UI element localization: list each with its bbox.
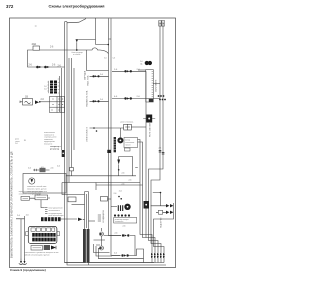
trunk harness lines [85, 192, 89, 265]
big box lower-left [23, 174, 66, 194]
svg-text:5-6: 5-6 [104, 58, 107, 60]
small box lower-left [21, 196, 30, 200]
bus mid vertical 3 [68, 58, 70, 183]
trunk to ticks wire [89, 220, 96, 222]
box on wire A [68, 197, 76, 202]
small text left x15 [15, 139, 27, 146]
bullets bottom rows [121, 234, 129, 256]
L-step wire B [151, 150, 161, 263]
comb feed 3 [138, 142, 156, 263]
small box on bus [70, 168, 74, 171]
svg-text:Схемы электрооборудования: Схемы электрооборудования [48, 5, 104, 9]
wire lamp top [108, 198, 112, 200]
right-mid bus pair [109, 19, 122, 256]
wire rotated-label row y76 [90, 75, 109, 77]
grid contact dots [52, 99, 64, 111]
dark relay box right x146 [146, 115, 152, 123]
wire with fusible loop [78, 48, 109, 54]
lamp tie wires [94, 240, 106, 249]
border frame [10, 18, 176, 268]
wiper relay box [124, 124, 132, 130]
wire row y98.5 [112, 98, 160, 100]
wiper feed wire y128 [90, 127, 124, 129]
svg-text:отопителем и: отопителем и [49, 210, 60, 212]
svg-text:372: 372 [6, 4, 14, 9]
diode junction [153, 193, 161, 206]
svg-text:тителя: тителя [125, 144, 131, 146]
text block y206-216 [49, 208, 64, 218]
motor M dark [117, 137, 123, 143]
wire rotated-label row y101 [90, 100, 109, 102]
dark row to trunk wire [60, 218, 85, 220]
bus short vertical right [73, 68, 75, 150]
loop circuit washer [119, 157, 133, 176]
junction arrow top [76, 39, 79, 42]
svg-text:отопителя: отопителя [115, 221, 124, 223]
lighter component on box top [40, 168, 46, 172]
diodes right [166, 204, 173, 214]
svg-text:ЗАРЯДКА: ЗАРЯДКА [84, 70, 87, 80]
wire box2 drop [41, 200, 45, 208]
svg-text:5-6: 5-6 [113, 58, 116, 60]
L-step wire A [149, 154, 164, 263]
resistor label box [114, 218, 137, 224]
relay contact dots right [158, 95, 166, 100]
connector dot [76, 49, 78, 51]
bus left pair vertical 1 [65, 22, 155, 263]
svg-text:Схема 9 (продолжение): Схема 9 (продолжение) [10, 268, 46, 272]
bus mid vertical 4 [71, 58, 73, 176]
heater blower resistor bars [118, 205, 122, 211]
svg-text:в салоне: в салоне [73, 54, 80, 56]
svg-text:УКАЗАТЕЛЬ ПОВ.: УКАЗАТЕЛЬ ПОВ. [86, 90, 89, 107]
pin ticks left of control text [45, 208, 48, 214]
lamp wires bottom [104, 236, 144, 263]
long horizontal y175 [66, 175, 136, 177]
horizontal y185 with riser [96, 183, 143, 191]
drop wire x86.5 to bus [87, 50, 109, 71]
comb connector symbols [151, 253, 165, 258]
vertical from top frame [95, 18, 97, 45]
wire fuse left drop [28, 50, 65, 67]
text inside big box [27, 185, 47, 193]
bottom rail [65, 262, 165, 264]
junction dots near lamp box [118, 196, 120, 198]
big connector block [28, 227, 57, 244]
diode cluster feeds [151, 203, 174, 215]
bullet pairs row y71 [124, 70, 132, 100]
top right bus fuses [159, 21, 165, 27]
motor label box [124, 138, 138, 152]
comb feed 5 from diodes [154, 215, 174, 263]
svg-text:КОНДИЦИОН.: КОНДИЦИОН. [103, 209, 105, 222]
bus top bar [65, 21, 68, 23]
bullet pairs row y76 [92, 75, 99, 102]
svg-text:2-6: 2-6 [44, 88, 47, 90]
bullets connector pair top-left [36, 66, 49, 69]
comb feed 2 [138, 140, 153, 263]
wire fuse to junction [40, 49, 76, 51]
svg-text:УКАЗ. ПОВ.: УКАЗ. ПОВ. [87, 75, 90, 86]
wire top feeder to right bus [67, 19, 86, 23]
dark connector block mid-left [44, 81, 57, 94]
tick on wire x136 [135, 167, 138, 169]
dark blob pair right [145, 61, 152, 65]
lamps right-bottom [100, 228, 104, 250]
bus short vertical left [61, 68, 63, 150]
svg-text:РЕЛЕ СВЕЧЕЙ: РЕЛЕ СВЕЧЕЙ [149, 122, 152, 137]
svg-text:СТЕКЛООЧИСТ.: СТЕКЛООЧИСТ. [87, 126, 89, 142]
sleeve on right-mid bus pair [107, 150, 111, 153]
diagonal wire to bus pair [77, 40, 109, 51]
connector bar left of motor [114, 137, 116, 152]
svg-text:реле стеклооч.: реле стеклооч. [121, 122, 135, 124]
svg-text:2-6: 2-6 [15, 143, 18, 145]
bottom corner wires [94, 244, 144, 259]
text band [24, 252, 58, 256]
svg-text:рийной сигнализации и датчик: рийной сигнализации и датчик [24, 253, 50, 256]
stray mark near top [35, 25, 37, 27]
heater resistor dark box [144, 201, 150, 209]
loop arrow [117, 160, 120, 165]
svg-text:реле вентилятора: реле вентилятора [49, 215, 64, 217]
pin tick marks on bus x59 [58, 79, 60, 93]
wire y204.5 [72, 204, 85, 206]
box2 under big box [35, 195, 48, 200]
motor drop [119, 128, 121, 137]
control unit boxes under connector [31, 246, 43, 251]
svg-text:ВЫКЛЮЧАТЕЛЬ ЗАЖИГАНИЯ, ГЕНЕРАТ: ВЫКЛЮЧАТЕЛЬ ЗАЖИГАНИЯ, ГЕНЕРАТОР, ПРИКУР… [10, 151, 14, 258]
vertical x146 [145, 71, 147, 237]
svg-text:регулятор: регулятор [50, 148, 60, 150]
svg-text:ЗАЖИГАНИЕ: ЗАЖИГАНИЕ [155, 79, 158, 92]
bus end ticks right [159, 151, 165, 155]
pin strip right [146, 70, 154, 102]
heater switch label [19, 191, 43, 195]
bus left pair vertical 2 [67, 22, 166, 265]
connector sleeve on bus [62, 150, 65, 157]
long horizontal y182.5 [62, 182, 140, 184]
row of connector circles under motor [114, 214, 130, 216]
wire small box row y198 [30, 197, 51, 199]
wire lamp-row y71.5 [112, 70, 146, 72]
svg-text:ПОДОГРЕВ: ПОДОГРЕВ [161, 217, 163, 228]
ignition switch grid table [50, 97, 65, 113]
ground arrows bottom-left [19, 259, 27, 265]
svg-text:40А: 40А [32, 42, 37, 46]
ground wires left [16, 216, 25, 259]
svg-text:2-6: 2-6 [159, 148, 162, 150]
wiper relay to corner [131, 126, 146, 128]
wire y194.5 [62, 183, 85, 195]
pin strip lead [138, 69, 146, 71]
dark pin row [41, 217, 61, 221]
fuse F 40A top-left [33, 46, 40, 50]
heater motor dark circle [124, 204, 130, 210]
vertical stub near grid [59, 76, 61, 112]
box on wire B [101, 197, 108, 202]
ticks column x98 [98, 215, 101, 221]
text block list mid-left [44, 132, 56, 146]
arrow into trunk [78, 218, 83, 221]
trunk dark band [83, 229, 90, 263]
right bus pair verticals [160, 22, 163, 155]
